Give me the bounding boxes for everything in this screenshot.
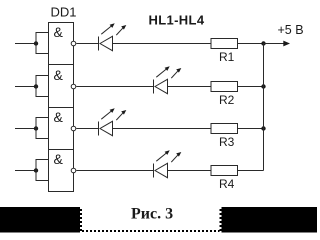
row 2: input junction dot (34, 84, 38, 88)
row 4: input bracket (36, 160, 49, 181)
LED HL3 cathode bar (98, 122, 100, 136)
+5V rail vertical wire (263, 44, 265, 171)
svg-text:R3: R3 (219, 135, 235, 149)
caption frame left dashed edge (80, 207, 82, 233)
svg-text:R1: R1 (219, 50, 235, 64)
row 1: wire resistor to rail (238, 43, 264, 45)
svg-text:&: & (54, 67, 64, 83)
LED HL1 emission arrow b (116, 27, 123, 35)
caption bar right black block (220, 207, 318, 233)
caption frame bottom dashed border (82, 230, 220, 232)
row 4: wire LED to resistor (168, 170, 212, 172)
rail junction dot row 2 (261, 84, 265, 88)
row 1: wire LED to resistor (113, 43, 212, 45)
+5V arrow (264, 43, 286, 45)
row 2: wire bubble to LED (76, 86, 153, 88)
row 2: wire LED to resistor (168, 86, 212, 88)
row 3: wire resistor to rail (238, 128, 264, 130)
caption bar left black block (0, 207, 82, 233)
row 2: input bracket (36, 76, 49, 97)
LED HL4 cathode bar (153, 164, 155, 178)
row 1: output inverter bubble (71, 41, 76, 46)
row 2: output inverter bubble (71, 84, 76, 89)
svg-text:&: & (54, 151, 64, 167)
svg-text:&: & (54, 109, 64, 125)
LED HL2 emission arrow a (156, 69, 167, 78)
row 4: output inverter bubble (71, 168, 76, 173)
row 4: wire resistor to rail (238, 170, 264, 172)
LED HL3 emission arrow a (101, 111, 112, 120)
row 1: input bracket (36, 33, 49, 54)
svg-text:+5 В: +5 В (278, 23, 304, 37)
LED HL3 emission arrow b (116, 112, 123, 120)
row 3: output inverter bubble (71, 126, 76, 131)
svg-text:R4: R4 (219, 177, 235, 191)
LED HL1 emission arrow a (101, 26, 112, 35)
row 3: input bracket (36, 118, 49, 139)
row 2: input wire (15, 86, 36, 88)
LED HL4 emission arrow b (171, 154, 178, 162)
gate divider 1 (49, 64, 74, 66)
row 2: wire resistor to rail (238, 86, 264, 88)
LED HL3 triangle (100, 121, 113, 135)
resistor R3 body (211, 124, 238, 134)
LED HL4 emission arrow a (156, 153, 167, 162)
row 3: input wire (15, 128, 36, 130)
LED HL2 emission arrow b (171, 70, 178, 78)
rail junction dot row 1 (261, 41, 265, 45)
row 3: input junction dot (34, 126, 38, 130)
rail junction dot row 3 (261, 126, 265, 130)
row 4: wire bubble to LED (76, 170, 153, 172)
LED HL2 cathode bar (153, 80, 155, 94)
gate divider 3 (49, 149, 74, 151)
LED HL2 triangle (155, 79, 168, 93)
resistor R4 body (211, 166, 238, 176)
row 1: wire bubble to LED (76, 43, 98, 45)
svg-text:Рис. 3: Рис. 3 (131, 206, 173, 223)
svg-text:DD1: DD1 (51, 5, 77, 20)
svg-text:&: & (54, 24, 64, 40)
svg-text:R2: R2 (219, 93, 235, 107)
resistor R1 body (211, 39, 238, 49)
IC DD1 body (49, 23, 74, 192)
row 3: wire LED to resistor (113, 128, 212, 130)
row 1: input wire (15, 43, 36, 45)
svg-text:HL1-HL4: HL1-HL4 (149, 13, 205, 28)
LED HL1 triangle (100, 36, 113, 50)
row 4: input junction dot (34, 168, 38, 172)
gate divider 2 (49, 107, 74, 109)
resistor R2 body (211, 82, 238, 92)
row 4: input wire (15, 170, 36, 172)
LED HL1 cathode bar (98, 37, 100, 51)
row 1: input junction dot (34, 41, 38, 45)
caption frame right dashed edge (220, 207, 222, 233)
LED HL4 triangle (155, 163, 168, 177)
row 3: wire bubble to LED (76, 128, 98, 130)
